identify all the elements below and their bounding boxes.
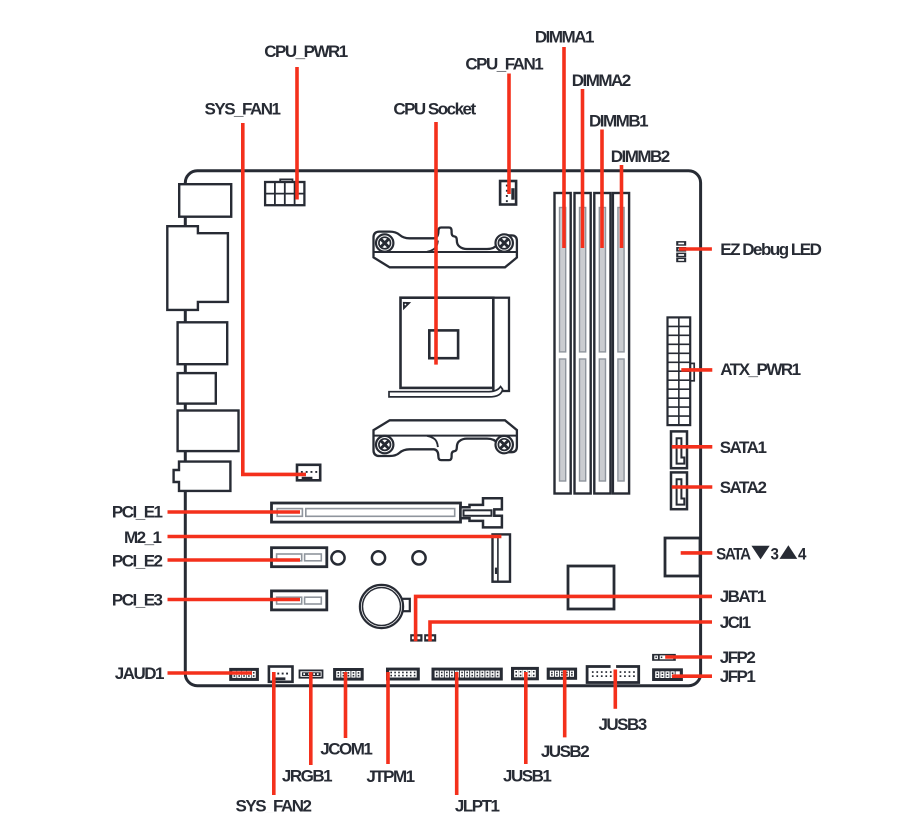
- connector SYS_FAN2 fan header: [269, 667, 293, 682]
- svg-text:SYS_FAN1: SYS_FAN1: [205, 99, 281, 118]
- svg-text:EZ Debug LED: EZ Debug LED: [720, 240, 821, 259]
- wire leader JBAT1: [416, 596, 712, 641]
- wire leader DIMMB1: [600, 130, 604, 249]
- header JCOM1: [333, 668, 364, 681]
- wire leader CPU Socket: [434, 122, 438, 365]
- wire leader JFP2: [665, 655, 712, 659]
- wire leader SATA1: [672, 445, 713, 449]
- connector IO port PS2: [179, 184, 231, 217]
- wire leader JCI1: [430, 622, 712, 641]
- svg-text:JTPM1: JTPM1: [366, 767, 414, 786]
- wire leader PCI_E3: [168, 598, 301, 602]
- wire leader JTPM1: [386, 672, 390, 764]
- wire leader JUSB1: [524, 672, 528, 764]
- svg-text:CPU_PWR1: CPU_PWR1: [264, 42, 348, 61]
- slot M2_1: [493, 534, 511, 581]
- wire leader EZ Debug LED: [679, 247, 712, 251]
- svg-text:JAUD1: JAUD1: [115, 664, 164, 683]
- wire leader CPU_PWR1: [295, 67, 299, 200]
- hole standoff 2: [372, 551, 385, 564]
- wire leader M2_1: [168, 535, 502, 539]
- wire leader PCI_E2: [168, 558, 301, 562]
- wire leader JUSB2: [563, 670, 567, 737]
- svg-text:JLPT1: JLPT1: [455, 796, 500, 813]
- connector SATA3 SATA4 block: [665, 538, 700, 576]
- wire leader JFP1: [672, 674, 712, 678]
- connector SYS_FAN1 fan header: [297, 465, 320, 481]
- hole standoff 1: [331, 551, 344, 564]
- battery CMOS: [360, 585, 410, 628]
- wire leader JRGB1: [309, 672, 313, 765]
- header JAUD1: [229, 668, 259, 681]
- header JRGB1: [300, 670, 323, 677]
- wire leader DIMMA1: [562, 47, 566, 248]
- jumper JCI1: [424, 634, 436, 641]
- svg-text:DIMMA1: DIMMA1: [535, 28, 594, 47]
- header JLPT1: [432, 668, 503, 681]
- wire leader JCOM1: [344, 672, 348, 738]
- svg-text:DIMMA2: DIMMA2: [572, 71, 631, 90]
- connector IO port VGA: [167, 226, 228, 310]
- svg-text:JBAT1: JBAT1: [720, 587, 766, 606]
- slot PCI_E2 x1: [272, 548, 327, 567]
- slot PCI_E3 x1: [272, 591, 327, 610]
- label SATA down3 up4: [716, 545, 806, 564]
- slot DIMMA2: [575, 193, 591, 494]
- svg-text:PCI_E1: PCI_E1: [112, 503, 163, 522]
- screw top-right: [496, 234, 513, 251]
- svg-text:ATX_PWR1: ATX_PWR1: [720, 360, 800, 379]
- screw bottom-right: [496, 436, 513, 453]
- connector IO port LAN USB: [178, 411, 239, 452]
- svg-text:JUSB3: JUSB3: [598, 715, 646, 734]
- jumper JFP2: [652, 654, 676, 661]
- slot DIMMA1: [555, 193, 571, 494]
- connector CPU_PWR1 8-pin power: [265, 179, 304, 205]
- screw bottom-left: [376, 436, 393, 453]
- wire leader DIMMA2: [581, 89, 585, 248]
- header JTPM1: [386, 668, 420, 681]
- wire leader SATA3 SATA4: [681, 551, 713, 555]
- svg-text:3: 3: [770, 545, 778, 564]
- svg-text:DIMMB1: DIMMB1: [589, 111, 648, 130]
- connector ATX_PWR1 24-pin power: [668, 317, 695, 425]
- jumper JBAT1: [410, 634, 422, 641]
- header JUSB2: [547, 668, 577, 680]
- svg-text:4: 4: [798, 545, 806, 564]
- connector CPU_FAN1 fan header: [500, 181, 516, 205]
- wire leader DIMMB2: [620, 165, 624, 248]
- hole standoff 3: [412, 551, 425, 564]
- connector SATA1: [671, 431, 687, 468]
- svg-text:SATA: SATA: [716, 545, 751, 564]
- svg-text:CPU Socket: CPU Socket: [393, 99, 476, 118]
- wire leader JLPT1: [455, 672, 459, 795]
- wire leader SATA2: [672, 485, 713, 489]
- bracket CPU retention top: [374, 228, 517, 268]
- svg-text:PCI_E3: PCI_E3: [112, 591, 163, 610]
- svg-text:JCI1: JCI1: [720, 613, 751, 632]
- chip chipset: [568, 566, 614, 609]
- header JUSB1: [511, 667, 539, 680]
- slot PCI_E1 x16: [272, 498, 502, 527]
- connector IO port 3: [178, 322, 228, 364]
- wire leader SYS_FAN2: [272, 672, 276, 795]
- screw top-left: [376, 234, 393, 251]
- svg-text:JFP2: JFP2: [720, 648, 756, 667]
- svg-text:JFP1: JFP1: [720, 667, 756, 686]
- connector IO port 4: [178, 373, 216, 404]
- wire leader SYS_FAN1: [243, 123, 306, 474]
- header JFP1: [652, 668, 683, 681]
- svg-text:JUSB1: JUSB1: [503, 767, 551, 786]
- wire leader ATX_PWR1: [681, 368, 712, 372]
- connector SATA2: [671, 472, 687, 509]
- slot DIMMB2: [613, 193, 629, 494]
- LED EZ Debug LED block: [676, 241, 686, 262]
- svg-text:PCI_E2: PCI_E2: [112, 551, 163, 570]
- svg-text:SATA1: SATA1: [720, 438, 767, 457]
- wire leader JUSB3: [613, 670, 617, 709]
- wire leader JAUD1: [168, 671, 253, 675]
- slot DIMMB1: [594, 193, 610, 494]
- svg-text:JUSB2: JUSB2: [541, 742, 589, 761]
- header JUSB3 USB3 connector: [587, 664, 639, 682]
- socket CPU AM4 body: [389, 298, 509, 397]
- svg-text:SYS_FAN2: SYS_FAN2: [236, 796, 312, 813]
- svg-text:JCOM1: JCOM1: [320, 739, 372, 758]
- wire board outline: [185, 171, 700, 686]
- svg-text:DIMMB2: DIMMB2: [611, 147, 670, 166]
- svg-text:SATA2: SATA2: [720, 478, 767, 497]
- wire leader PCI_E1: [168, 510, 301, 514]
- svg-text:CPU_FAN1: CPU_FAN1: [465, 55, 543, 74]
- svg-text:JRGB1: JRGB1: [282, 766, 332, 785]
- bracket CPU retention bottom: [374, 420, 517, 460]
- svg-text:M2_1: M2_1: [124, 528, 162, 547]
- wire leader CPU_FAN1: [507, 74, 511, 195]
- connector IO port audio: [174, 462, 231, 491]
